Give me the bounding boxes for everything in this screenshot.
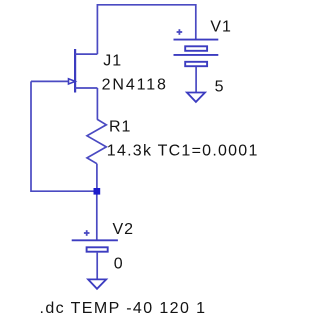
svg-text:14.3k TC1=0.0001: 14.3k TC1=0.0001 [107,142,259,159]
wire [96,88,98,119]
svg-text:V2: V2 [113,221,134,238]
wire [97,5,195,54]
ground [88,279,106,288]
transistor J1 [69,49,98,93]
svg-text:J1: J1 [103,53,122,70]
svg-text:R1: R1 [109,118,131,135]
wire [31,80,69,82]
svg-text:2N4118: 2N4118 [102,77,168,94]
battery V2 [72,230,118,279]
ground [187,93,205,102]
svg-text:.dc TEMP -40 120 1: .dc TEMP -40 120 1 [40,300,207,317]
node junction [94,188,101,195]
svg-text:V1: V1 [210,18,231,35]
wire [96,164,98,192]
svg-text:0: 0 [114,256,124,273]
svg-text:5: 5 [215,78,225,95]
battery V1 [174,29,219,92]
resistor R1 [87,119,106,164]
wire [31,81,98,191]
wire [96,191,98,241]
